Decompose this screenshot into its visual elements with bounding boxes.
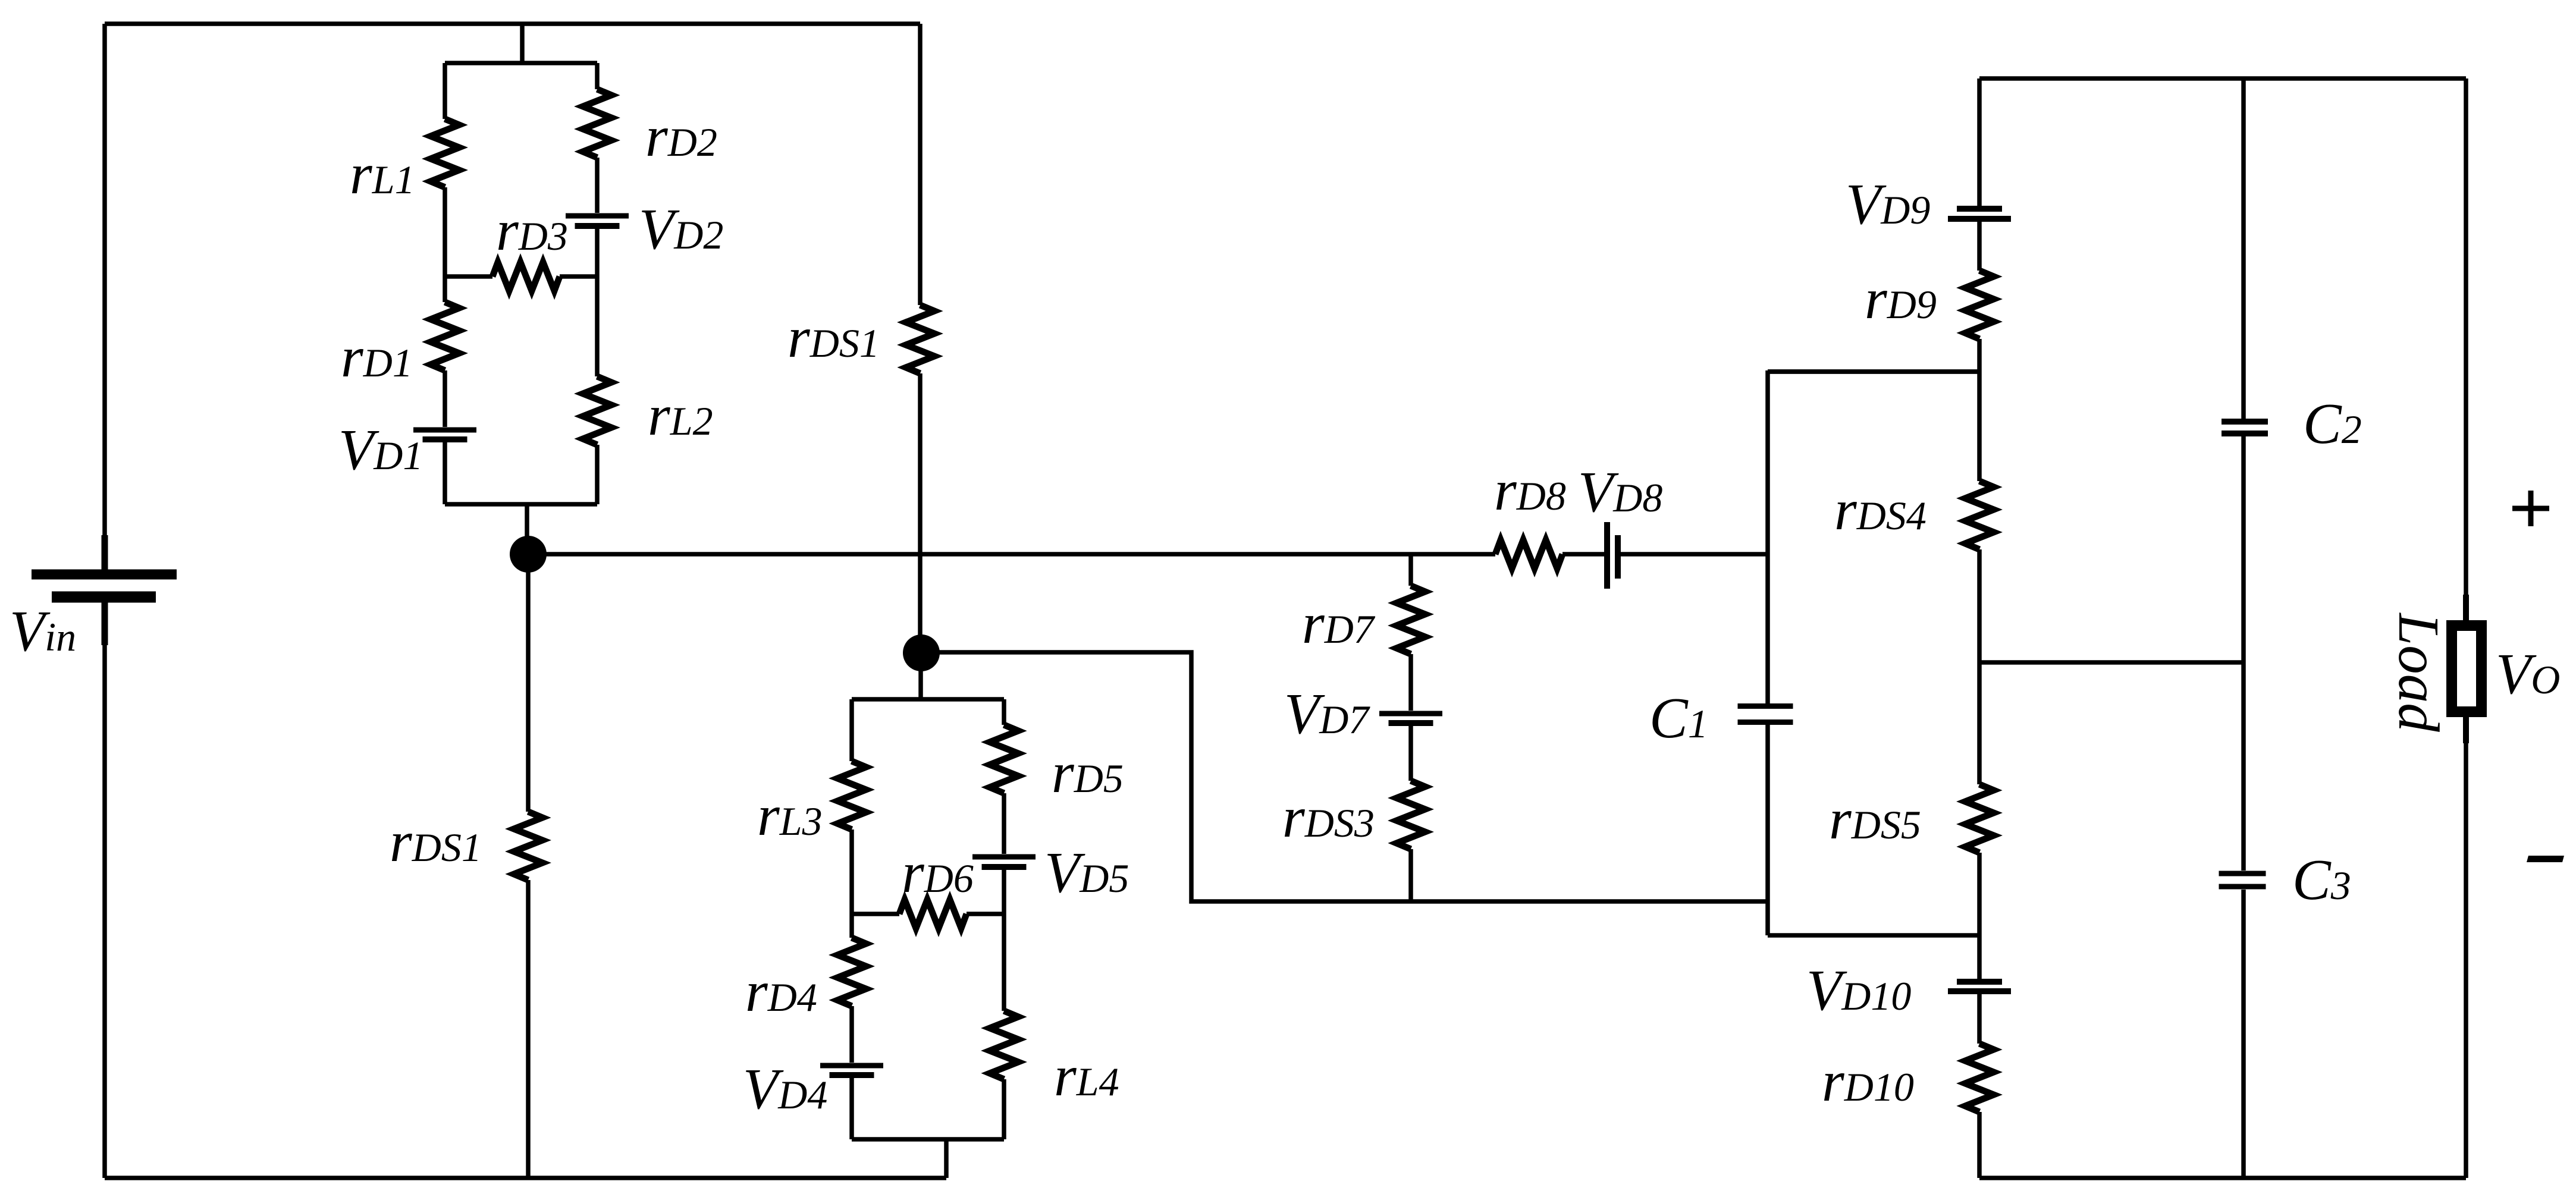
resistor rD3 [492, 262, 560, 291]
wire bottom-left rail [105, 1176, 946, 1180]
wire C2-C3 branch middle [2241, 436, 2246, 871]
battery VD9 [1948, 209, 2011, 219]
wire left vertical (Vin bottom lead) [102, 602, 107, 1178]
wire box3 bottom [1768, 933, 1979, 938]
wire box1 bottom [445, 502, 597, 507]
wire rDS1 upper branch top [918, 24, 923, 305]
node B junction [903, 634, 940, 671]
wire right branch top lead [1977, 78, 1982, 206]
wire box2 top stub [918, 653, 923, 699]
battery VD5 [972, 857, 1036, 867]
resistor rDS3 [1397, 781, 1425, 849]
battery source Vin [32, 574, 177, 597]
wire VD10 to rD10 [1977, 994, 1982, 1044]
wire VD5 to rL4 [1002, 870, 1006, 1011]
wire rD5 to VD5 [1002, 793, 1006, 854]
wire VD2 to rL2 [595, 229, 600, 376]
wire rD7 to VD7 [1408, 654, 1413, 711]
node A junction [510, 536, 547, 573]
wire top-right rail [1979, 76, 2466, 81]
wire box3 top [1768, 369, 1979, 374]
wire C3 branch lower [2241, 890, 2246, 1178]
capacitor C1 [1738, 706, 1793, 722]
wire mid rail y1114 [1979, 660, 2244, 665]
wire bottom-right rail [1979, 1176, 2466, 1180]
wire rD10 bottom lead [1977, 1112, 1982, 1178]
capacitor C3 [2219, 873, 2266, 887]
resistor rD10 [1965, 1044, 1994, 1112]
wire box2 middle left lead [852, 912, 899, 916]
wire left vertical (Vin top lead) [102, 24, 107, 565]
battery VD10 [1948, 982, 2011, 991]
wire rD7 top lead [1408, 554, 1413, 586]
wire box2 left upper [849, 699, 854, 761]
wire box2 right upper [1002, 699, 1006, 725]
wire rDS5 to VD10 [1977, 853, 1982, 979]
wire rD2 to VD2 [595, 158, 600, 213]
resistor rD7 [1397, 586, 1425, 654]
wire node A horizontal [528, 552, 1495, 557]
wire box1 middle left lead [445, 274, 492, 279]
capacitor C2 [2222, 422, 2268, 433]
wire rDS3 bottom lead [1408, 849, 1413, 901]
wire mid rail y625 [1768, 369, 1979, 374]
resistor rD5 [990, 725, 1018, 793]
resistor rL4 [990, 1011, 1018, 1079]
wire box1 left upper [443, 63, 447, 119]
resistor rDS1 (lower) [514, 812, 542, 880]
wire rD4 to VD4 [849, 1006, 854, 1063]
wire rDS1 lower to bottom rail [526, 880, 531, 1178]
Vin thick stubs [102, 535, 108, 645]
wire node B to C1 bottom rail [921, 652, 1768, 901]
minus sign [2527, 856, 2564, 862]
wire box1 top [445, 61, 597, 65]
plus sign [2512, 491, 2549, 526]
wire rDS4 to rDS5 [1977, 549, 1982, 784]
resistor rD4 [837, 938, 866, 1006]
wire box2 middle right lead [967, 912, 1004, 916]
resistor rDS4 [1965, 481, 1994, 549]
wire node A vertical [526, 554, 531, 812]
wire rL2 to box1 bottom [595, 445, 600, 504]
wire C1 branch lower [1765, 725, 1770, 935]
battery VD4 [820, 1066, 883, 1075]
wire rD8 to VD8 [1562, 552, 1604, 557]
wire C2 branch upper [2241, 78, 2246, 419]
wire C1 branch upper [1765, 370, 1770, 703]
wire VD4 to box2 bottom [849, 1078, 854, 1139]
wire VD8 to C1 branch [1621, 552, 1768, 557]
wire load branch upper [2464, 78, 2468, 620]
battery VD7 [1379, 714, 1442, 723]
battery VD1 [413, 430, 476, 439]
battery VD8 [1607, 522, 1618, 589]
resistor rD8 [1495, 540, 1562, 568]
wire box1 bottom stub [525, 504, 529, 554]
load thick stubs [2463, 595, 2469, 743]
resistor rDS5 [1965, 784, 1994, 853]
resistor rL1 [431, 119, 459, 187]
wire box2 bottom stub [944, 1139, 949, 1178]
wire VD1 to box1 bottom [443, 442, 447, 504]
wire box2 left mid [849, 829, 854, 938]
wire box1 right upper [595, 63, 600, 89]
resistor rL2 [583, 376, 611, 445]
svg-text:Load: Load [2387, 612, 2451, 732]
wire top rail [105, 21, 920, 26]
resistor rL3 [837, 761, 866, 829]
wire box2 top [852, 697, 1004, 702]
resistor rD9 [1965, 271, 1994, 339]
battery VD2 [566, 216, 629, 226]
wire box1 middle right lead [560, 274, 597, 279]
wire rD1 to VD1 [443, 370, 447, 427]
wire VD9 to rD9 [1977, 222, 1982, 271]
resistor rD6 [899, 900, 967, 928]
wire rD9 to rDS4 [1977, 339, 1982, 481]
resistor rD1 [431, 302, 459, 370]
wire box1 top stub [520, 24, 525, 63]
resistor rDS1 (upper) [906, 305, 934, 373]
load resistor (rectangle) [2452, 626, 2481, 712]
wire load branch lower [2464, 717, 2468, 1178]
wire rDS1 upper to node B [918, 373, 923, 653]
wire rL4 to box2 bottom [1002, 1079, 1006, 1139]
wire box1 left mid [443, 187, 447, 302]
wire box2 bottom [852, 1137, 1004, 1142]
resistor rD2 [583, 89, 611, 158]
wire VD7 to rDS3 [1408, 726, 1413, 781]
